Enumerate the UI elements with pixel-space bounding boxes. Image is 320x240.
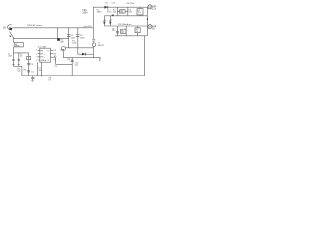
svg-text:c: c bbox=[44, 54, 45, 56]
svg-text:220: 220 bbox=[120, 12, 123, 14]
svg-text:230V AC mains: 230V AC mains bbox=[27, 24, 43, 27]
svg-text:5V: 5V bbox=[152, 28, 155, 30]
svg-text:3: 3 bbox=[36, 57, 37, 59]
svg-text:V~: V~ bbox=[3, 29, 5, 31]
svg-text:IC1 LNK: IC1 LNK bbox=[38, 47, 47, 49]
svg-text:230V: 230V bbox=[82, 12, 88, 14]
svg-text:47u: 47u bbox=[112, 30, 115, 32]
svg-text:c: c bbox=[44, 57, 45, 59]
svg-text:DF06: DF06 bbox=[15, 46, 20, 48]
svg-text:BD679: BD679 bbox=[98, 45, 105, 47]
svg-text:470k: 470k bbox=[72, 42, 76, 44]
svg-text:12V: 12V bbox=[152, 9, 157, 11]
svg-text:470u: 470u bbox=[107, 12, 111, 14]
svg-text:4: 4 bbox=[36, 60, 37, 62]
svg-text:dc: dc bbox=[99, 60, 101, 62]
svg-text:10n: 10n bbox=[39, 70, 42, 72]
svg-text:5V6: 5V6 bbox=[129, 12, 132, 14]
svg-text:1m: 1m bbox=[20, 56, 23, 58]
svg-text:Y1: Y1 bbox=[33, 78, 35, 80]
svg-text:10k: 10k bbox=[17, 70, 20, 72]
svg-text:prim 230: prim 230 bbox=[84, 26, 93, 28]
svg-text:2: 2 bbox=[36, 53, 37, 55]
svg-text:R9 470k: R9 470k bbox=[126, 3, 133, 5]
svg-text:1: 1 bbox=[36, 50, 37, 52]
svg-text:EN: EN bbox=[40, 57, 43, 59]
svg-text:12V 500mA out: 12V 500mA out bbox=[118, 23, 132, 26]
svg-text:22u: 22u bbox=[75, 64, 78, 66]
svg-text:R3: R3 bbox=[24, 70, 26, 72]
svg-text:2k2: 2k2 bbox=[121, 32, 124, 34]
